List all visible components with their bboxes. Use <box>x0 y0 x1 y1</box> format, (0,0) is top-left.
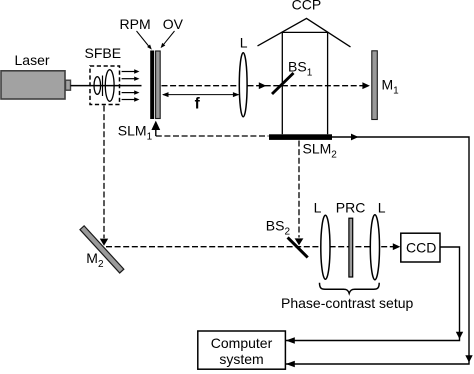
svg-text:CCD: CCD <box>406 239 436 255</box>
OV pointer arrow <box>161 31 175 48</box>
svg-text:system: system <box>219 351 263 367</box>
beam arrow 2 <box>122 77 140 81</box>
mirror M1 <box>372 51 378 120</box>
svg-text:f: f <box>195 95 201 112</box>
wire laser to SFBE axis <box>71 85 142 87</box>
svg-text:L: L <box>378 199 386 215</box>
computer system box <box>198 331 286 369</box>
wire CCD to computer <box>286 247 460 341</box>
svg-text:CCP: CCP <box>292 0 322 13</box>
wire SLM2 down to BS2 dashed <box>298 141 300 238</box>
RPM pointer arrow <box>137 31 152 50</box>
svg-text:PRC: PRC <box>336 199 366 215</box>
beam arrow 3 <box>122 90 140 94</box>
OV gray bar <box>156 51 161 119</box>
svg-text:L: L <box>240 35 248 51</box>
SFBE dashed box <box>90 66 120 105</box>
wire SLM2 to computer (right then down then left) <box>286 137 469 364</box>
SFBE aperture line <box>102 76 104 97</box>
laser box <box>1 71 65 99</box>
PRC plate <box>349 218 353 277</box>
laser nozzle <box>66 80 71 90</box>
svg-text:OV: OV <box>163 16 184 32</box>
arrow down at corner of SLM2 wire <box>465 355 472 362</box>
beam splitter BS2 <box>288 237 308 257</box>
CCP box <box>282 32 327 134</box>
wire SLM1 to SLM2 dashed feedback <box>156 135 269 137</box>
wire main axis dashed SLM1 to M1 <box>162 85 367 87</box>
CCP prism roof <box>258 18 351 47</box>
arrow into CCD <box>393 243 401 250</box>
arrow left into computer box (upper) <box>286 337 295 343</box>
f measure line <box>162 92 239 97</box>
beam arrow 1 <box>122 69 140 73</box>
brace under phase contrast setup <box>320 283 380 294</box>
beam arrow 4 <box>122 97 140 101</box>
wire M2 to BS2 to CCD dashed <box>106 246 393 248</box>
svg-text:SFBE: SFBE <box>85 45 122 61</box>
phase contrast lens 1 <box>321 215 330 279</box>
wire SFBE down to M2 dashed <box>103 106 105 239</box>
CCD box <box>401 233 440 262</box>
SFBE lens big <box>105 70 114 102</box>
lens L ellipse <box>239 53 247 117</box>
svg-text:L: L <box>314 199 322 215</box>
SLM1 pointer up arrow <box>151 121 160 136</box>
arrow down into BS2 <box>295 238 304 245</box>
arrow left into computer box (lower) <box>286 361 295 367</box>
phase contrast lens 2 <box>370 215 379 280</box>
arrow right on SLM2 wire <box>351 134 359 141</box>
axis arrow after lens L <box>259 82 267 89</box>
mirror M2 <box>80 226 124 273</box>
beam splitter BS1 <box>272 73 294 94</box>
SLM2 bar <box>269 134 332 140</box>
svg-text:Phase-contrast setup: Phase-contrast setup <box>281 295 414 311</box>
svg-text:RPM: RPM <box>120 16 151 32</box>
axis arrow into M1 <box>362 82 370 89</box>
svg-text:Computer: Computer <box>211 335 273 351</box>
svg-text:Laser: Laser <box>15 52 50 68</box>
arrow down at corner of CCD wire <box>456 332 463 339</box>
RPM black bar <box>150 51 154 120</box>
SFBE lens small <box>94 77 101 95</box>
arrow down into M2 <box>100 239 108 246</box>
